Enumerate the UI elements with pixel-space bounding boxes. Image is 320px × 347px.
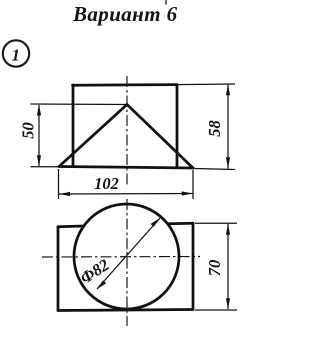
svg-text:50: 50 — [19, 122, 38, 139]
dim 58 extension top — [177, 83, 235, 86]
triangle right leg — [127, 105, 193, 169]
dim 102 extension left — [58, 169, 60, 199]
svg-text:102: 102 — [94, 174, 119, 193]
svg-text:70: 70 — [205, 260, 224, 277]
svg-text:Вариант 6: Вариант 6 — [72, 2, 178, 26]
top rect right edge — [192, 223, 195, 309]
front rect top edge — [73, 83, 178, 86]
dim 50 line — [38, 105, 40, 166]
top rect left edge — [57, 227, 60, 311]
dim 102 arrow right — [182, 191, 193, 195]
dim 102 line — [59, 193, 193, 196]
front rect right edge — [176, 85, 179, 167]
dim 50 arrow down — [37, 155, 41, 166]
dim 70 extension top — [195, 222, 237, 224]
svg-text:58: 58 — [205, 120, 224, 137]
dim 102 arrow left — [59, 192, 70, 196]
dim phi82 line — [97, 218, 160, 289]
dim 58 arrow up — [226, 84, 230, 95]
dim 70 arrow down — [226, 298, 230, 309]
scan tick mark top edge — [165, 0, 167, 5]
dim 50 arrow up — [37, 105, 41, 116]
top rect top edge left segment — [58, 225, 84, 229]
dim 50 extension bottom — [31, 166, 60, 168]
dim 58 line — [227, 85, 229, 169]
svg-text:1: 1 — [12, 46, 21, 65]
dim 50 extension top — [31, 103, 128, 106]
front rect left edge — [72, 85, 75, 167]
dim 58 arrow down — [226, 157, 230, 168]
circle (cylinder outline) — [74, 204, 179, 309]
dim 58 extension bottom — [194, 169, 235, 170]
dim 70 extension bottom — [195, 309, 237, 311]
top rect bottom edge — [58, 310, 193, 311]
vertical centerline (top view) — [126, 199, 128, 326]
dim 70 line — [227, 224, 229, 309]
top rect top edge right segment — [169, 222, 193, 225]
dim 70 arrow up — [226, 224, 230, 235]
variant number badge circle — [3, 40, 29, 66]
vertical centerline (front view) — [126, 76, 128, 186]
triangle left leg — [59, 105, 127, 167]
dim phi82 arrow upper-right — [151, 218, 161, 227]
dim 102 extension right — [192, 170, 194, 199]
base line — [59, 167, 193, 169]
horizontal centerline (top view) — [42, 256, 200, 259]
dim phi82 arrow lower-left — [97, 280, 107, 289]
